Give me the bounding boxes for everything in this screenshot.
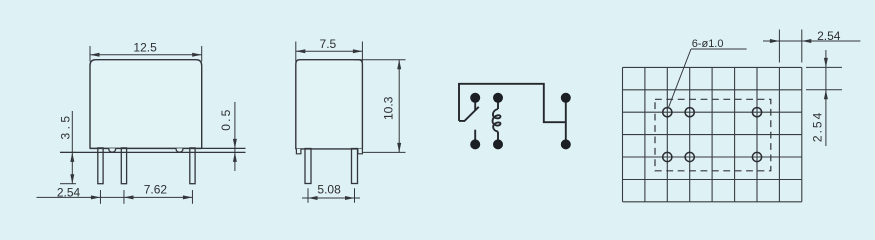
- wire: right contact link: [565, 98, 567, 145]
- pin dot bottom-left: [470, 139, 480, 149]
- pin 3 (front): [190, 148, 195, 184]
- dimension 2.54 (hole pitch vertical): [806, 50, 842, 146]
- hole H2: [685, 108, 694, 117]
- hole H6: [752, 152, 761, 161]
- pin dot bottom-middle (coil): [493, 139, 503, 149]
- standoff foot left (front view): [109, 148, 116, 152]
- coil L1: [493, 109, 501, 132]
- svg-text:2.54: 2.54: [57, 186, 81, 200]
- svg-text:7.62: 7.62: [144, 183, 168, 197]
- pin 1 (front): [98, 148, 103, 184]
- svg-text:3.5: 3.5: [58, 113, 72, 140]
- contact blade (switch): [459, 107, 479, 121]
- relay body (side view): [296, 60, 363, 149]
- svg-text:12.5: 12.5: [133, 41, 157, 55]
- relay body (front view): [90, 60, 202, 149]
- pin 2 (front): [121, 148, 126, 184]
- standoff foot right (front view): [176, 148, 183, 152]
- wire: stub below common dot: [474, 98, 476, 111]
- dimension 5.08 (pin pitch side): [302, 188, 360, 203]
- hole H4: [663, 152, 672, 161]
- pin 4 (side): [305, 149, 311, 184]
- svg-text:2.54: 2.54: [810, 111, 824, 142]
- svg-text:0.5: 0.5: [219, 107, 233, 130]
- svg-text:10.3: 10.3: [382, 96, 396, 120]
- dimension 10.3 (body height): [354, 60, 406, 153]
- svg-text:5.08: 5.08: [317, 182, 341, 196]
- standoff foot right (side view): [358, 149, 363, 154]
- pin dot top-right: [561, 93, 571, 103]
- svg-text:7.5: 7.5: [320, 37, 337, 51]
- hole H5: [685, 152, 694, 161]
- pin 5 (side): [352, 149, 358, 184]
- standoff foot left (side view): [296, 149, 301, 154]
- dimension 2.54 (hole pitch horizontal): [763, 30, 860, 63]
- dimension 12.5 (body width): [90, 46, 202, 62]
- dimension 3.5 (pin length): [60, 111, 76, 184]
- hole H1: [663, 108, 672, 117]
- svg-text:2.54: 2.54: [817, 29, 841, 43]
- pin dot top-left (common): [470, 93, 480, 103]
- wire: stub above NO dot: [474, 130, 476, 145]
- wire: top rail: [459, 84, 566, 122]
- wire: coil top lead: [497, 98, 499, 109]
- hole H3: [752, 108, 761, 117]
- seating plane line: [60, 151, 246, 153]
- pin dot top-middle (coil): [493, 93, 503, 103]
- dimension 0.5 (standoff height): [234, 102, 236, 171]
- body bottom line extension (right): [90, 147, 246, 149]
- dimension 7.5 (body depth): [296, 42, 363, 63]
- wire: coil bottom lead: [497, 132, 499, 145]
- PCB grid: [623, 67, 802, 201]
- relay outline dashed on grid: [655, 99, 771, 171]
- svg-text:6-ø1.0: 6-ø1.0: [692, 38, 724, 50]
- bottom dimension line (2.54 / 7.62): [37, 190, 193, 204]
- pin dot bottom-right: [561, 139, 571, 149]
